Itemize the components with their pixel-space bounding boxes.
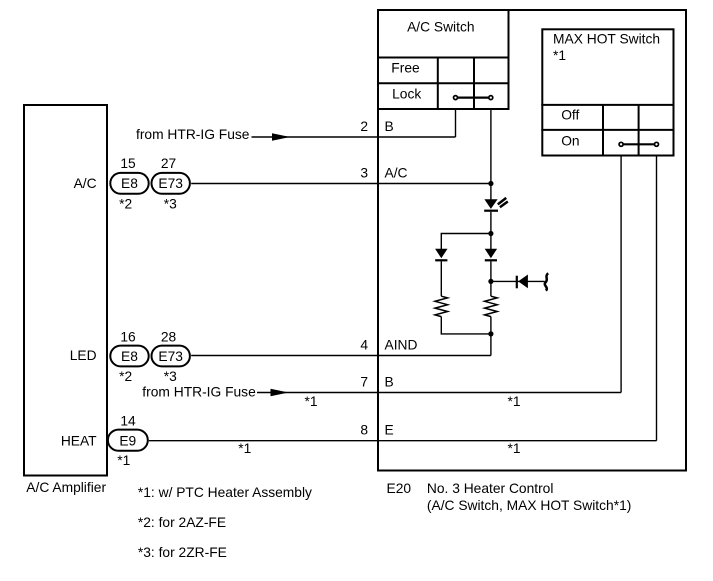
A/C Switch column line 1	[437, 58, 439, 110]
wire node to break symbol	[491, 280, 545, 282]
switch contact S2 On row	[619, 142, 658, 146]
wire pin2 B with arrow	[252, 133, 456, 140]
svg-text:4: 4	[360, 338, 368, 353]
wire switch right terminal down	[490, 110, 492, 200]
svg-text:E8: E8	[121, 349, 138, 364]
svg-text:A/C: A/C	[385, 166, 408, 181]
svg-text:E20: E20	[387, 481, 412, 496]
box A/C Amplifier	[24, 105, 107, 476]
wire pin8 E	[149, 440, 657, 442]
svg-text:B: B	[385, 375, 394, 390]
A/C Switch row line Free/Lock	[377, 82, 509, 84]
box A/C Switch	[378, 10, 509, 109]
wire diode D3 to node	[490, 261, 492, 281]
connector E8 pin 15	[110, 173, 148, 194]
junction node bottom	[488, 331, 493, 336]
wire pin4 AIND	[191, 355, 491, 357]
wire node to AIND row	[490, 334, 492, 356]
svg-text:*2: for 2AZ-FE: *2: for 2AZ-FE	[138, 515, 226, 530]
svg-text:*1: *1	[117, 453, 130, 468]
wire row8 up to MAX HOT switch	[656, 156, 658, 441]
svg-text:E8: E8	[121, 176, 138, 191]
connector E8 pin 16	[110, 346, 148, 367]
junction node below LED	[488, 231, 493, 236]
switch contact S1 Lock row	[454, 96, 493, 100]
resistor R2 right	[485, 296, 498, 316]
wire diode D2 to resistor R1	[440, 261, 442, 296]
wire switch left terminal to pin2 row	[455, 110, 457, 137]
svg-text:*1: *1	[553, 48, 566, 63]
svg-text:27: 27	[161, 156, 176, 171]
svg-text:AIND: AIND	[385, 338, 418, 353]
resistor R1 left	[435, 296, 448, 316]
svg-text:Lock: Lock	[392, 87, 421, 102]
svg-text:8: 8	[360, 423, 368, 438]
wire break squiggle	[545, 273, 548, 290]
svg-text:from HTR-IG Fuse: from HTR-IG Fuse	[142, 384, 256, 399]
connector E9 pin 14	[108, 430, 148, 451]
svg-text:*3: *3	[164, 197, 177, 212]
svg-text:A/C: A/C	[74, 176, 97, 191]
svg-text:HEAT: HEAT	[61, 433, 97, 448]
svg-text:*1: *1	[507, 394, 520, 409]
wire pin3 A/C	[191, 183, 491, 185]
connector E73 pin 27	[152, 173, 190, 194]
svg-text:Off: Off	[561, 108, 579, 123]
svg-text:15: 15	[120, 156, 136, 171]
box E20 No.3 Heater Control outline	[378, 10, 686, 471]
svg-text:A/C Amplifier: A/C Amplifier	[26, 480, 106, 495]
connector E73 pin 28	[152, 346, 190, 367]
svg-text:from HTR-IG Fuse: from HTR-IG Fuse	[136, 127, 250, 142]
svg-text:*1: *1	[238, 441, 251, 456]
svg-text:E: E	[385, 423, 394, 438]
svg-text:16: 16	[120, 329, 136, 344]
wire resistor R2 to node	[490, 317, 492, 334]
wire LED to node	[490, 212, 492, 234]
svg-text:2: 2	[360, 119, 368, 134]
wire row7 up to MAX HOT switch	[620, 156, 622, 393]
svg-text:E9: E9	[119, 433, 136, 448]
wire branch left top	[441, 234, 491, 250]
svg-text:28: 28	[161, 329, 177, 344]
svg-text:*3: *3	[164, 369, 177, 384]
svg-text:*1: *1	[304, 394, 317, 409]
svg-text:No. 3 Heater Control: No. 3 Heater Control	[427, 481, 554, 496]
MAX HOT column line 1	[602, 105, 604, 155]
svg-text:On: On	[561, 134, 579, 149]
diode D3 right	[485, 249, 497, 262]
svg-text:14: 14	[120, 413, 136, 428]
svg-text:Free: Free	[391, 60, 420, 75]
svg-text:*1: *1	[507, 441, 520, 456]
wire node to diode D3	[490, 234, 492, 250]
svg-text:(A/C Switch, MAX HOT Switch*1): (A/C Switch, MAX HOT Switch*1)	[427, 498, 631, 513]
svg-text:MAX HOT Switch: MAX HOT Switch	[553, 32, 660, 47]
A/C Switch column line 2	[473, 58, 475, 110]
svg-text:E73: E73	[158, 176, 183, 191]
box MAX HOT Switch	[542, 29, 673, 155]
MAX HOT column line 2	[638, 105, 640, 155]
svg-text:B: B	[385, 119, 394, 134]
svg-text:*2: *2	[119, 197, 132, 212]
svg-text:A/C Switch: A/C Switch	[407, 19, 474, 34]
junction node row3	[488, 181, 493, 186]
svg-text:3: 3	[360, 166, 368, 181]
svg-text:E73: E73	[158, 349, 183, 364]
diode D2 left	[435, 249, 447, 262]
wire node to resistor R2	[490, 281, 492, 296]
A/C Switch row line title/Free	[377, 57, 509, 59]
svg-text:*2: *2	[119, 369, 132, 384]
svg-text:*1: w/ PTC Heater Assembly: *1: w/ PTC Heater Assembly	[138, 485, 312, 500]
wire branch left bottom	[441, 317, 491, 334]
svg-text:7: 7	[360, 375, 368, 390]
svg-text:*3: for 2ZR-FE: *3: for 2ZR-FE	[138, 545, 227, 560]
MAX HOT row line Off/On	[541, 129, 674, 131]
diode D4 horizontal	[517, 275, 528, 289]
junction node mid right	[488, 279, 493, 284]
wire pin7 B with arrow	[257, 389, 621, 396]
MAX HOT row line title/Off	[541, 104, 674, 106]
LED D1	[484, 198, 508, 212]
svg-text:LED: LED	[70, 348, 97, 363]
